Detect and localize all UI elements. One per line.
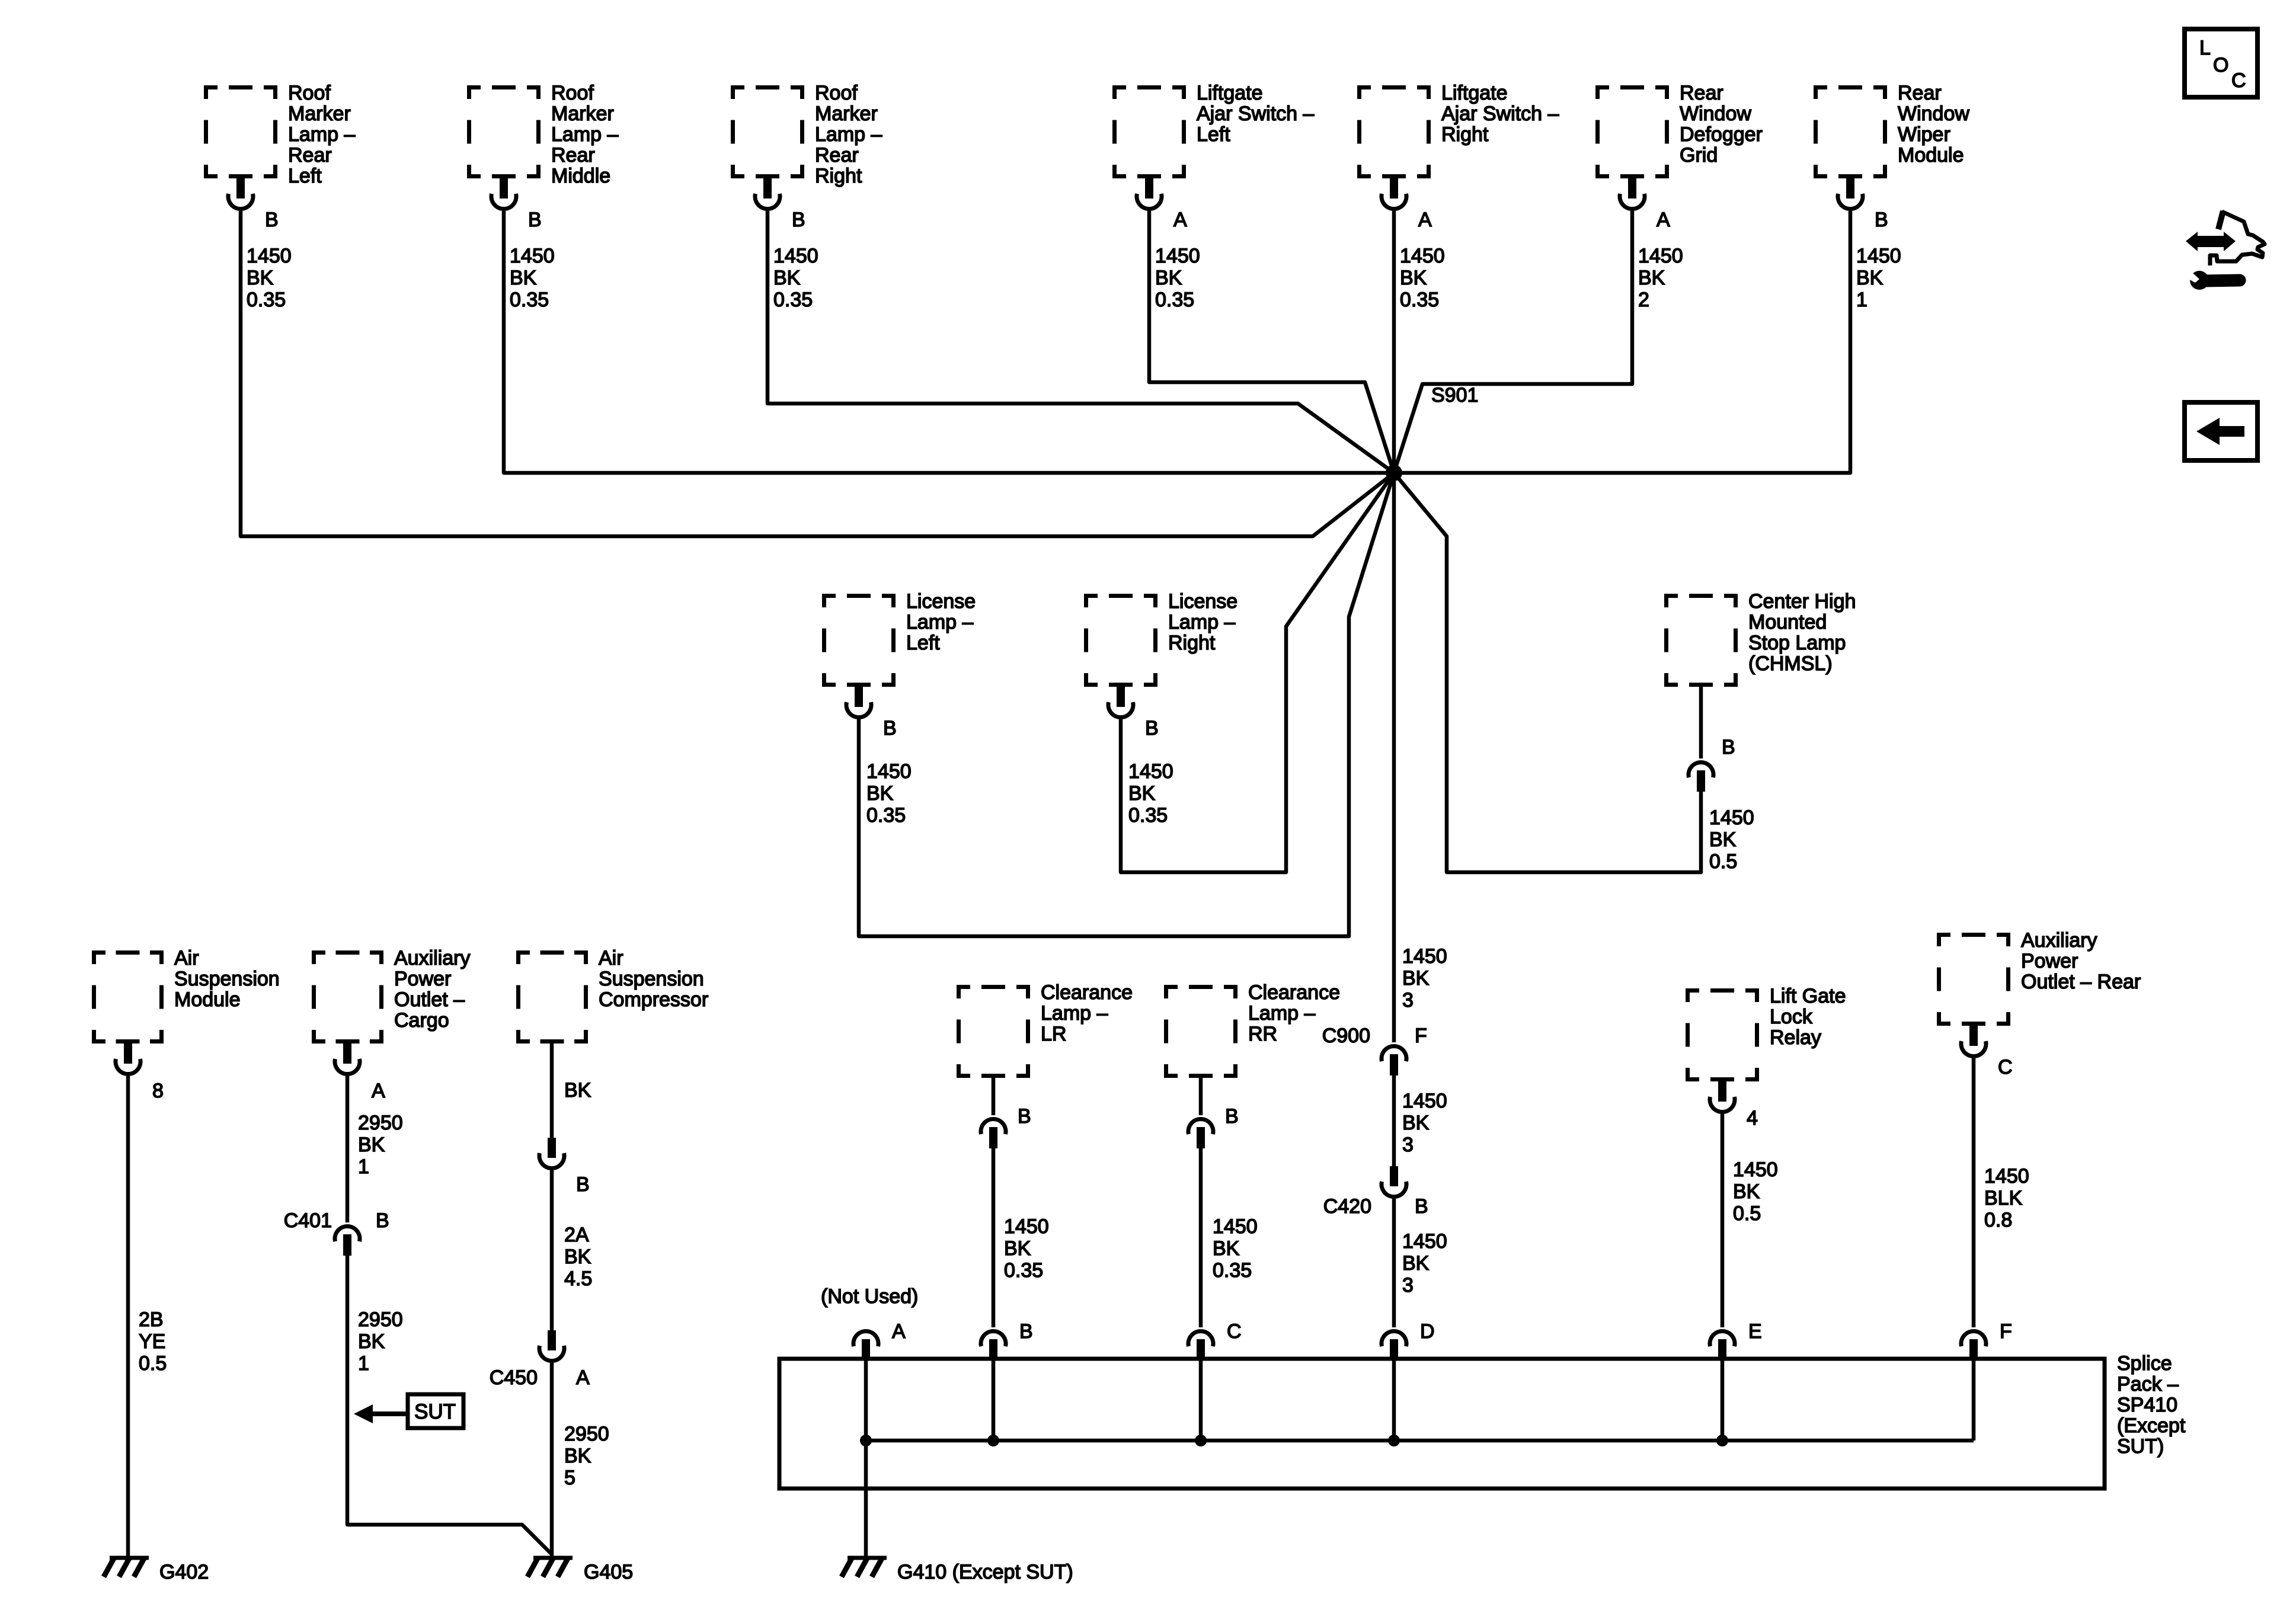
svg-text:F: F: [1415, 1025, 1427, 1047]
svg-text:L: L: [2199, 37, 2211, 59]
wire label 2A BK 4.5: [564, 1224, 592, 1290]
svg-text:LiftgateAjar Switch –Right: LiftgateAjar Switch –Right: [1441, 82, 1559, 146]
wire Liftgate Ajar Left to S901: [1149, 211, 1394, 473]
pin B connector of Roof Marker Lamp - Rear Middle: [491, 178, 542, 231]
pin D vertical inside splice pack: [1392, 1361, 1396, 1441]
wire C450 to ground G405: [550, 1363, 554, 1558]
wire label 2B YE 0.5: [139, 1308, 167, 1375]
component box License Lamp - Right: [1084, 590, 1237, 687]
wire label 1450 BK 0.35: [866, 760, 912, 827]
svg-text:AuxiliaryPowerOutlet –Cargo: AuxiliaryPowerOutlet –Cargo: [394, 947, 470, 1032]
wire relay to splice pack pin E: [1721, 1114, 1725, 1327]
wire label 1450 BK 0.35: [773, 245, 818, 311]
svg-text:B: B: [883, 717, 897, 740]
label (Not Used): [821, 1285, 918, 1308]
SUT arrow: [354, 1394, 463, 1428]
pin C connector of Aux Power Outlet Rear: [1961, 1026, 2013, 1078]
pin A connector of Aux Power Outlet Cargo: [335, 1044, 385, 1102]
svg-text:1450BK0.5: 1450BK0.5: [1733, 1158, 1778, 1225]
svg-text:C401: C401: [284, 1209, 332, 1232]
svg-text:E: E: [1748, 1320, 1762, 1343]
pin B connector of Roof Marker Lamp - Rear Left: [228, 178, 279, 231]
component box Rear Window Wiper Module: [1814, 82, 1969, 178]
component box Air Suspension Module: [92, 947, 280, 1044]
svg-text:C450: C450: [490, 1366, 538, 1389]
wire label 1450 BK 0.35: [247, 245, 292, 311]
splice pack pin D: [1382, 1320, 1435, 1361]
splice pack pin B: [981, 1320, 1033, 1361]
wire License Lamp Left to S901: [859, 473, 1394, 936]
svg-text:2BYE0.5: 2BYE0.5: [139, 1308, 167, 1375]
svg-text:B: B: [265, 209, 279, 231]
svg-text:2950BK1: 2950BK1: [358, 1112, 403, 1178]
svg-text:C: C: [1227, 1320, 1242, 1343]
svg-text:RearWindowDefoggerGrid: RearWindowDefoggerGrid: [1680, 82, 1763, 167]
wire label 2950 BK 1: [358, 1308, 403, 1375]
pin B connector of License Lamp Right: [1108, 687, 1159, 740]
component box Rear Window Defogger Grid: [1595, 82, 1763, 178]
svg-text:B: B: [1018, 1105, 1031, 1128]
svg-text:B: B: [792, 209, 805, 231]
svg-text:1450BK0.35: 1450BK0.35: [1004, 1215, 1049, 1282]
wire C401 to ground G405: [347, 1256, 552, 1554]
svg-text:B: B: [376, 1209, 389, 1232]
svg-text:D: D: [1420, 1320, 1435, 1343]
icon back arrow box: [2185, 402, 2257, 460]
svg-text:1450BK2: 1450BK2: [1638, 245, 1683, 311]
component box Clearance Lamp - RR: [1164, 981, 1340, 1078]
splice pack SP410 box: [779, 1352, 2186, 1489]
wire compressor to connector B: [550, 1044, 554, 1138]
splice pack pin C: [1188, 1320, 1242, 1361]
wire Clearance LR to splice pack: [992, 1078, 996, 1327]
svg-text:G402: G402: [159, 1561, 209, 1583]
component box Auxiliary Power Outlet - Cargo: [312, 947, 470, 1044]
pin B connector of License Lamp Left: [846, 687, 897, 740]
wire CHMSL to S901: [1394, 473, 1701, 872]
pin B connector of Rear Window Wiper Module: [1838, 178, 1888, 231]
wire Liftgate Ajar Right / main vertical to C900: [1392, 211, 1396, 1042]
svg-text:1450BK0.5: 1450BK0.5: [1709, 806, 1754, 873]
ground G410: [842, 1558, 1073, 1583]
svg-text:B: B: [1415, 1195, 1428, 1218]
pin B connector of Roof Marker Lamp - Rear Right: [755, 178, 805, 231]
wire label 1450 BK 3: [1402, 1230, 1447, 1297]
svg-text:1450BK3: 1450BK3: [1402, 945, 1447, 1012]
wire label 1450 BK 0.35: [1213, 1215, 1258, 1282]
svg-text:B: B: [1019, 1320, 1033, 1343]
wire module to ground G402: [126, 1076, 130, 1558]
svg-text:1450BK0.35: 1450BK0.35: [247, 245, 292, 311]
pin E vertical inside splice pack: [1721, 1361, 1725, 1441]
wire label 2950 BK 1: [358, 1112, 403, 1178]
pin 4 connector of Lift Gate Lock Relay: [1710, 1081, 1758, 1129]
svg-text:1450BK0.35: 1450BK0.35: [1128, 760, 1173, 827]
wire License Lamp Right to S901: [1121, 473, 1394, 872]
wire Rear Window Defogger to S901: [1394, 211, 1632, 473]
splice pack bus: [866, 1439, 1974, 1443]
svg-text:8: 8: [152, 1080, 164, 1102]
bus junction: [987, 1435, 999, 1446]
wire label 1450 BK 3: [1402, 945, 1447, 1012]
svg-text:F: F: [2000, 1320, 2012, 1343]
pin A vertical to ground: [864, 1361, 868, 1558]
splice pack pin A: [853, 1320, 906, 1361]
wire label 1450 BLK 0.8: [1984, 1165, 2029, 1231]
wire label 1450 BK 0.35: [1155, 245, 1200, 311]
wire label 1450 BK 0.5: [1733, 1158, 1778, 1225]
svg-text:B: B: [1225, 1105, 1239, 1128]
svg-text:SplicePack –SP410(ExceptSUT): SplicePack –SP410(ExceptSUT): [2117, 1352, 2186, 1458]
pin A connector of Liftgate Ajar Switch - Right: [1382, 178, 1432, 231]
svg-text:1450BLK0.8: 1450BLK0.8: [1984, 1165, 2029, 1231]
svg-text:Center HighMountedStop Lamp(CH: Center HighMountedStop Lamp(CHMSL): [1748, 590, 1856, 675]
ground G405: [527, 1558, 633, 1583]
svg-text:BK: BK: [564, 1079, 591, 1102]
component box Lift Gate Lock Relay: [1686, 985, 1846, 1081]
inline connector C450 pin A: [490, 1330, 590, 1389]
svg-text:A: A: [1657, 209, 1670, 231]
svg-text:G405: G405: [584, 1561, 633, 1583]
component box Auxiliary Power Outlet - Rear: [1937, 929, 2141, 1026]
svg-text:4: 4: [1747, 1107, 1758, 1129]
wire label 1450 BK 1: [1856, 245, 1901, 311]
svg-text:ClearanceLamp –LR: ClearanceLamp –LR: [1041, 981, 1133, 1045]
component box Center High Mounted Stop Lamp (CHMSL): [1664, 590, 1856, 687]
wire Roof Marker Rear Left to S901: [241, 211, 1394, 536]
svg-text:AirSuspensionCompressor: AirSuspensionCompressor: [599, 947, 708, 1011]
ground G402: [104, 1558, 209, 1583]
svg-text:B: B: [576, 1173, 590, 1196]
svg-text:S901: S901: [1431, 384, 1478, 406]
svg-text:B: B: [1722, 736, 1735, 758]
svg-text:1450BK0.35: 1450BK0.35: [1213, 1215, 1258, 1282]
inline connector C401 pin B: [284, 1209, 389, 1256]
icon vehicle with wrench: [2183, 211, 2265, 290]
wire label 1450 BK 3: [1402, 1090, 1447, 1156]
svg-text:B: B: [1145, 717, 1159, 740]
pin C vertical inside splice pack: [1199, 1361, 1203, 1441]
connector B of Clearance Lamp RR: [1188, 1105, 1239, 1148]
splice pack pin E: [1710, 1320, 1762, 1361]
svg-text:LicenseLamp –Right: LicenseLamp –Right: [1168, 590, 1237, 654]
connector B of Clearance Lamp LR: [981, 1105, 1031, 1148]
wire label 1450 BK 0.35: [510, 245, 555, 311]
svg-text:1450BK1: 1450BK1: [1856, 245, 1901, 311]
wire Roof Marker Rear Right to S901: [768, 211, 1394, 473]
wire Clearance RR to splice pack: [1199, 1078, 1203, 1327]
wire cargo outlet to C401: [346, 1076, 350, 1222]
svg-text:1450BK3: 1450BK3: [1402, 1230, 1447, 1297]
pin F vertical inside splice pack: [1972, 1361, 1976, 1441]
inline connector C420 pin B: [1323, 1166, 1428, 1218]
svg-text:C420: C420: [1323, 1195, 1371, 1218]
wire Rear Window Wiper to S901: [1394, 211, 1850, 473]
pin B vertical inside splice pack: [992, 1361, 996, 1441]
svg-text:RoofMarkerLamp –RearMiddle: RoofMarkerLamp –RearMiddle: [551, 82, 618, 187]
wire label 1450 BK 0.35: [1400, 245, 1445, 311]
svg-text:A: A: [576, 1366, 590, 1389]
component box Clearance Lamp - LR: [957, 981, 1133, 1078]
svg-text:LicenseLamp –Left: LicenseLamp –Left: [906, 590, 976, 654]
svg-text:RoofMarkerLamp –RearLeft: RoofMarkerLamp –RearLeft: [288, 82, 355, 187]
connector B of CHMSL: [1689, 736, 1735, 792]
bus junction: [1388, 1435, 1400, 1446]
component box Liftgate Ajar Switch - Left: [1112, 82, 1314, 178]
svg-text:LiftgateAjar Switch –Left: LiftgateAjar Switch –Left: [1197, 82, 1314, 146]
wire aux outlet rear to splice pack pin F: [1972, 1058, 1976, 1327]
bus junction: [1716, 1435, 1728, 1446]
svg-text:2950BK1: 2950BK1: [358, 1308, 403, 1375]
svg-text:RoofMarkerLamp –RearRight: RoofMarkerLamp –RearRight: [815, 82, 882, 187]
svg-text:SUT: SUT: [414, 1400, 456, 1423]
svg-text:2950BK5: 2950BK5: [564, 1423, 609, 1489]
svg-text:(Not Used): (Not Used): [821, 1285, 918, 1308]
component box Roof Marker Lamp - Rear Left: [204, 82, 355, 187]
component box Air Suspension Compressor: [516, 947, 708, 1044]
svg-text:C: C: [1998, 1056, 2013, 1078]
wire label 2950 BK 5: [564, 1423, 609, 1489]
svg-text:C: C: [2231, 69, 2246, 92]
component box Liftgate Ajar Switch - Right: [1357, 82, 1559, 178]
svg-text:1450BK0.35: 1450BK0.35: [773, 245, 818, 311]
pin 8 connector of Air Suspension Module: [116, 1044, 164, 1102]
svg-text:G410 (Except SUT): G410 (Except SUT): [897, 1561, 1073, 1583]
svg-text:A: A: [892, 1320, 906, 1343]
component box Roof Marker Lamp - Rear Right: [731, 82, 882, 187]
svg-text:A: A: [372, 1080, 385, 1102]
bus junction: [860, 1435, 872, 1446]
component box Roof Marker Lamp - Rear Middle: [467, 82, 618, 187]
svg-text:AirSuspensionModule: AirSuspensionModule: [174, 947, 280, 1011]
wire to C450: [550, 1170, 554, 1330]
svg-text:A: A: [1418, 209, 1432, 231]
wire C900 to C420: [1392, 1076, 1396, 1166]
bus junction: [1195, 1435, 1207, 1446]
splice S901: [1386, 384, 1478, 481]
icon LOC box: [2185, 29, 2257, 97]
svg-text:B: B: [528, 209, 542, 231]
pin A connector of Liftgate Ajar Switch - Left: [1137, 178, 1187, 231]
svg-text:1450BK0.35: 1450BK0.35: [866, 760, 912, 827]
splice pack pin F: [1961, 1320, 2012, 1361]
svg-text:1450BK0.35: 1450BK0.35: [1400, 245, 1445, 311]
inline connector B of compressor: [539, 1138, 590, 1196]
svg-text:B: B: [1875, 209, 1888, 231]
wire C420 to splice pack pin D: [1392, 1199, 1396, 1327]
wire label 1450 BK 0.35: [1004, 1215, 1049, 1282]
svg-text:1450BK3: 1450BK3: [1402, 1090, 1447, 1156]
svg-text:A: A: [1173, 209, 1187, 231]
wire label BK: [564, 1079, 591, 1102]
wire label 1450 BK 0.35: [1128, 760, 1173, 827]
svg-text:AuxiliaryPowerOutlet – Rear: AuxiliaryPowerOutlet – Rear: [2021, 929, 2141, 993]
svg-text:O: O: [2213, 54, 2228, 76]
component box License Lamp - Left: [822, 590, 976, 687]
wire Roof Marker Rear Middle to S901: [504, 211, 1394, 473]
wire label 1450 BK 0.5: [1709, 806, 1754, 873]
svg-text:1450BK0.35: 1450BK0.35: [510, 245, 555, 311]
inline connector C900 pin F: [1322, 1025, 1427, 1076]
wire label 1450 BK 2: [1638, 245, 1683, 311]
svg-text:Lift GateLockRelay: Lift GateLockRelay: [1770, 985, 1846, 1049]
svg-text:2ABK4.5: 2ABK4.5: [564, 1224, 592, 1290]
svg-text:RearWindowWiperModule: RearWindowWiperModule: [1898, 82, 1969, 167]
svg-text:C900: C900: [1322, 1025, 1370, 1047]
pin A connector of Rear Window Defogger Grid: [1620, 178, 1670, 231]
svg-text:1450BK0.35: 1450BK0.35: [1155, 245, 1200, 311]
